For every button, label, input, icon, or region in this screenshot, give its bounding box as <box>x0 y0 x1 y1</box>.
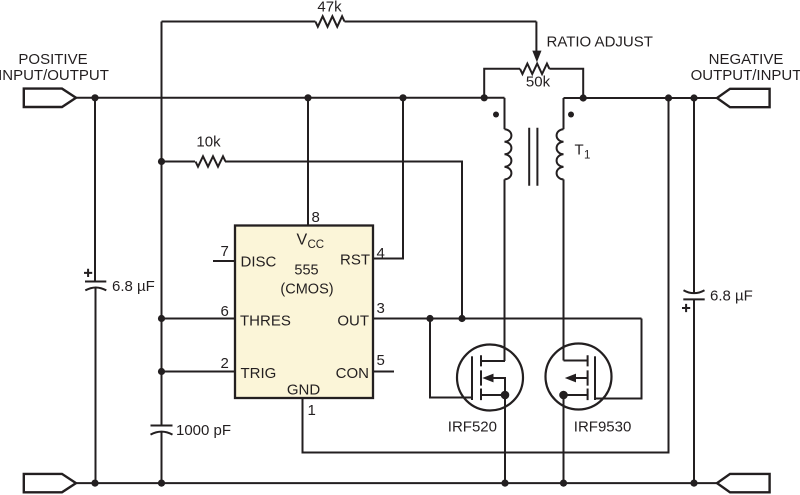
wiper arrowhead <box>532 51 541 63</box>
phase dot secondary <box>568 112 574 118</box>
terminal negative output/input (top right) <box>717 89 770 107</box>
svg-text:OUT: OUT <box>337 312 369 329</box>
wire 10k left lead <box>162 161 196 163</box>
svg-text:6: 6 <box>221 303 229 320</box>
junction dot pot left <box>481 94 488 101</box>
junction dot bottom Q1 source <box>501 480 508 487</box>
drain lead Q2 <box>564 360 588 362</box>
svg-text:2: 2 <box>221 355 229 372</box>
svg-text:CON: CON <box>336 365 369 382</box>
wire left branch vertical x=95 <box>94 98 96 281</box>
transformer T1 core <box>529 128 537 186</box>
svg-text:1: 1 <box>584 150 590 162</box>
svg-text:GND: GND <box>287 382 321 399</box>
svg-text:V: V <box>297 231 308 248</box>
IC U1 555 body <box>235 226 373 399</box>
junction dot Q1 source <box>501 391 510 400</box>
source lead Q1 <box>481 394 505 396</box>
wire gate Q1 <box>430 319 472 398</box>
svg-text:IRF520: IRF520 <box>448 419 497 436</box>
junction dot bottom 1000pF <box>158 480 165 487</box>
pin 1 GND return wire <box>303 98 669 453</box>
junction dot bottom cap right <box>690 480 697 487</box>
capacitor C2 curved plate <box>151 432 173 435</box>
svg-text:IRF9530: IRF9530 <box>574 419 632 436</box>
junction dot 10k left <box>158 158 165 165</box>
junction dot bottom Q2 source <box>560 480 567 487</box>
wire top rail left (positive rail) <box>76 97 505 99</box>
svg-text:5: 5 <box>377 352 385 369</box>
pot right lead <box>549 69 583 98</box>
junction dot gnd return <box>665 94 672 101</box>
terminal bottom left <box>24 474 76 492</box>
junction dot TRIG <box>158 368 165 375</box>
svg-text:RATIO ADJUST: RATIO ADJUST <box>547 33 653 50</box>
wire top rail right (negative rail) <box>564 97 718 99</box>
transistor Q1 IRF520 <box>448 345 523 484</box>
junction dot THRES <box>158 315 165 322</box>
svg-text:3: 3 <box>377 300 385 317</box>
svg-text:47k: 47k <box>317 0 342 16</box>
drain lead Q1 <box>481 360 505 362</box>
pin 3 OUT wire <box>373 318 642 320</box>
wire pot wiper <box>535 22 538 52</box>
wire VCC pin8 tap <box>307 98 309 226</box>
svg-text:RST: RST <box>340 251 370 268</box>
source down wire Q2 <box>563 395 565 483</box>
wire THRES/TRIG branch vertical x=161.5 <box>161 22 163 425</box>
junction dot rail left terminal <box>91 94 98 101</box>
resistor R 10k <box>196 156 226 166</box>
svg-text:T: T <box>575 142 584 159</box>
svg-text:THRES: THRES <box>240 312 291 329</box>
body lead Q1 with arrow <box>493 378 506 395</box>
wire RST pin4 tap <box>373 98 403 259</box>
capacitor C2 1000pF top plate <box>151 425 173 427</box>
svg-text:7: 7 <box>221 243 229 260</box>
terminal positive input/output (top left) <box>24 89 76 107</box>
gate bar Q2 <box>594 356 596 400</box>
plus sign C1 <box>84 269 92 277</box>
junction dot OUT 10k <box>458 315 465 322</box>
wire bottom rail <box>76 482 717 484</box>
phase dot primary <box>493 112 499 118</box>
potentiometer 50k body <box>520 64 549 74</box>
junction dot cap branch top <box>690 94 697 101</box>
wire top loop horizontal <box>162 21 537 23</box>
capacitor C3 plus plate <box>683 298 704 300</box>
wire negative rail cap branch x=694 <box>693 98 695 293</box>
transformer T1 secondary winding <box>563 98 565 129</box>
svg-text:(CMOS): (CMOS) <box>280 281 333 297</box>
capacitor C1 6.8uF plus plate <box>85 281 106 283</box>
terminal bottom right <box>717 474 770 492</box>
gate bar Q1 <box>471 356 473 400</box>
svg-text:CC: CC <box>308 239 325 251</box>
transformer T1 primary winding <box>504 98 506 129</box>
source down wire Q1 <box>504 395 506 483</box>
body lead Q2 with arrow <box>575 377 588 379</box>
svg-text:8: 8 <box>312 209 320 226</box>
pin 7 DISC stub <box>213 260 235 262</box>
channel bar Q2 <box>587 355 589 400</box>
svg-text:555: 555 <box>294 263 318 279</box>
svg-text:INPUT/OUTPUT: INPUT/OUTPUT <box>0 67 109 84</box>
junction dot bottom cap left <box>91 480 98 487</box>
resistor R 47k <box>315 16 344 26</box>
junction dot Q2 source <box>559 391 568 400</box>
svg-text:50k: 50k <box>526 73 551 90</box>
pin 2 TRIG wire <box>162 371 236 373</box>
junction dot RST tap <box>399 94 406 101</box>
svg-text:OUTPUT/INPUT: OUTPUT/INPUT <box>691 67 800 84</box>
source lead Q2 <box>564 394 588 396</box>
plus sign C3 <box>682 304 690 312</box>
svg-text:4: 4 <box>377 245 385 262</box>
svg-text:1: 1 <box>308 402 316 419</box>
svg-text:6.8 µF: 6.8 µF <box>112 278 155 295</box>
channel bar Q1 <box>480 355 482 400</box>
pin 5 CON stub <box>373 371 394 373</box>
junction dot pot right <box>580 94 587 101</box>
pot left lead <box>484 69 520 98</box>
capacitor C1 curved plate <box>85 287 106 290</box>
svg-text:10k: 10k <box>196 134 221 151</box>
wire 10k right lead to OUT <box>225 162 462 319</box>
svg-text:DISC: DISC <box>241 253 277 270</box>
pin 6 THRES wire <box>162 318 236 320</box>
transistor Q2 IRF9530 <box>546 344 632 484</box>
junction dot pin8 tap <box>304 94 311 101</box>
svg-text:NEGATIVE: NEGATIVE <box>709 51 784 68</box>
svg-text:1000 pF: 1000 pF <box>176 422 231 439</box>
junction dot OUT gate1 <box>426 315 433 322</box>
capacitor C3 6.8uF curved plate <box>684 290 705 293</box>
svg-text:POSITIVE: POSITIVE <box>18 51 87 68</box>
wire gate Q2 <box>595 319 642 399</box>
svg-text:TRIG: TRIG <box>241 365 277 382</box>
svg-text:6.8 µF: 6.8 µF <box>710 288 753 305</box>
